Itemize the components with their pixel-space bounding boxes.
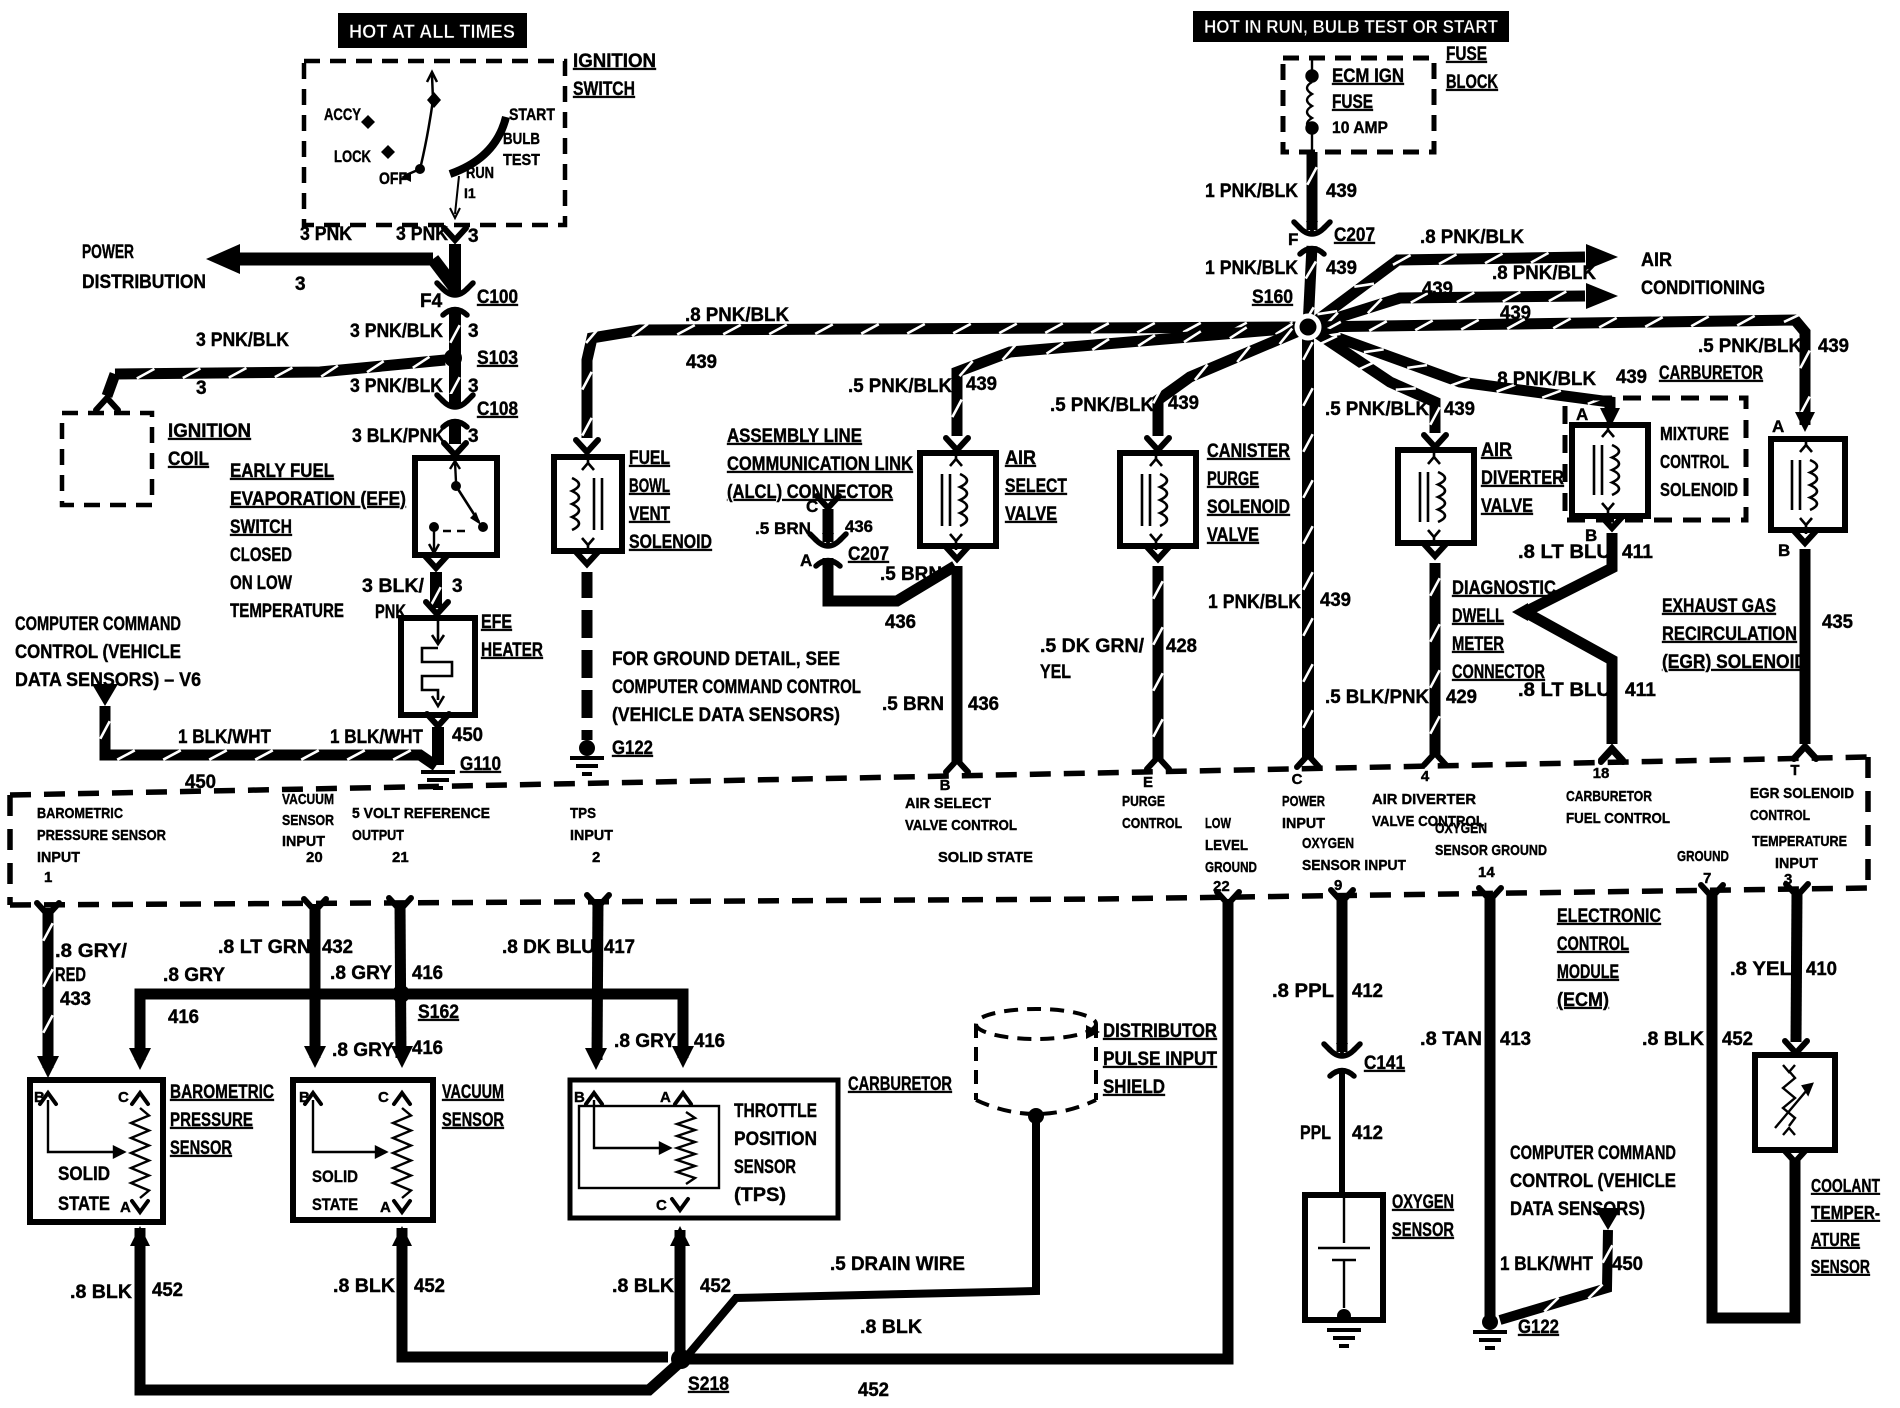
fuel bowl vent solenoid box: [554, 457, 622, 551]
svg-text:3 BLK/PNK: 3 BLK/PNK: [352, 426, 445, 447]
svg-text:LEVEL: LEVEL: [1205, 837, 1248, 854]
svg-text:429: 429: [1446, 687, 1477, 708]
svg-text:SENSOR: SENSOR: [282, 812, 334, 829]
ECM pin 1 bottom connector: [37, 903, 59, 915]
connector below air select valve: [946, 547, 968, 559]
connector C207 main: [1294, 221, 1330, 254]
svg-text:PULSE INPUT: PULSE INPUT: [1103, 1049, 1217, 1070]
svg-text:S218: S218: [688, 1374, 729, 1395]
svg-text:412: 412: [1352, 981, 1383, 1002]
wire pin1 to barometric sensor: [43, 908, 52, 1068]
wire ignition switch to C100: [449, 244, 461, 295]
svg-text:3: 3: [452, 576, 463, 597]
svg-text:GROUND: GROUND: [1205, 859, 1257, 876]
svg-text:B: B: [1778, 541, 1790, 560]
svg-text:FUEL CONTROL: FUEL CONTROL: [1566, 810, 1670, 827]
connector C100: [437, 282, 473, 315]
svg-text:3 PNK/BLK: 3 PNK/BLK: [196, 330, 289, 351]
svg-text:CONTROL: CONTROL: [1557, 934, 1629, 955]
svg-text:DISTRIBUTOR: DISTRIBUTOR: [1103, 1021, 1217, 1042]
ECM pin T connector: [1794, 747, 1816, 759]
EGR solenoid box: [1771, 439, 1845, 530]
svg-text:B: B: [574, 1089, 585, 1106]
svg-text:VENT: VENT: [629, 504, 670, 525]
svg-text:.8 BLK: .8 BLK: [860, 1317, 922, 1338]
wire S218 to pin22 riser: [688, 899, 1228, 1359]
svg-text:COMMUNICATION LINK: COMMUNICATION LINK: [727, 454, 913, 475]
svg-text:416: 416: [412, 1038, 443, 1059]
svg-text:PPL: PPL: [1300, 1123, 1331, 1144]
svg-text:(EGR) SOLENOID: (EGR) SOLENOID: [1662, 652, 1807, 673]
ignition switch ACCY contact: [324, 105, 375, 129]
svg-text:450: 450: [452, 725, 483, 746]
svg-text:PRESSURE SENSOR: PRESSURE SENSOR: [37, 827, 166, 844]
svg-text:SOLENOID: SOLENOID: [1207, 497, 1290, 518]
label exhaust gas recirculation solenoid: [1662, 596, 1807, 673]
label vacuum sensor input: [282, 791, 334, 850]
svg-text:452: 452: [414, 1276, 445, 1297]
mixture control solenoid coil: [1594, 421, 1619, 519]
svg-text:CARBURETOR: CARBURETOR: [1566, 788, 1652, 805]
svg-text:.8 GRY: .8 GRY: [332, 1040, 394, 1061]
svg-text:1 PNK/BLK: 1 PNK/BLK: [1205, 258, 1298, 279]
wire MCS to dwell connector point: [1525, 533, 1612, 744]
svg-text:439: 439: [1326, 258, 1357, 279]
air diverter coil: [1420, 448, 1445, 546]
svg-text:VACUUM: VACUUM: [282, 791, 334, 808]
G122 right ground: [1473, 1332, 1507, 1348]
svg-text:INPUT: INPUT: [1775, 855, 1818, 872]
fuse block box: [1283, 58, 1434, 152]
wire canister purge to ECM pin E: [1153, 566, 1162, 760]
svg-text:411: 411: [1625, 680, 1656, 701]
connector into canister purge valve: [1147, 438, 1169, 450]
svg-text:436: 436: [885, 612, 916, 633]
svg-text:SOLID: SOLID: [312, 1167, 358, 1186]
wire heater to G110: [432, 727, 444, 765]
svg-text:(TPS): (TPS): [734, 1185, 786, 1206]
connector into air select valve: [946, 438, 968, 450]
svg-text:PRESSURE: PRESSURE: [170, 1110, 253, 1131]
svg-text:14: 14: [1478, 864, 1495, 881]
svg-text:.5 BRN: .5 BRN: [882, 694, 944, 715]
G122 right dot: [1482, 1314, 1498, 1330]
svg-text:(ECM): (ECM): [1557, 990, 1609, 1011]
svg-text:VALVE CONTROL: VALVE CONTROL: [905, 817, 1017, 834]
TPS resistor: [677, 1112, 695, 1184]
svg-text:BAROMETRIC: BAROMETRIC: [37, 805, 123, 822]
banner HOT AT ALL TIMES: [338, 13, 527, 48]
arrowhead air conditioning 2: [1586, 283, 1618, 309]
svg-text:G122: G122: [612, 738, 653, 759]
wire S160 to EGR solenoid: [1308, 313, 1810, 425]
svg-text:RED: RED: [55, 965, 86, 986]
connector MCS wire to pin 18: [1601, 748, 1623, 760]
ignition switch LOCK contact: [334, 145, 395, 166]
svg-text:1 PNK/BLK: 1 PNK/BLK: [1208, 592, 1301, 613]
wire drain: [688, 1120, 1036, 1355]
ECM pin 4 connector: [1424, 753, 1446, 765]
svg-text:FUEL: FUEL: [629, 448, 670, 469]
svg-text:.5 BLK/PNK: .5 BLK/PNK: [1325, 687, 1429, 708]
wire pin21 through S162: [400, 902, 401, 1058]
distributor arrow: [1086, 1025, 1100, 1039]
svg-text:EVAPORATION (EFE): EVAPORATION (EFE): [230, 489, 406, 510]
svg-text:450: 450: [1612, 1254, 1643, 1275]
svg-text:1 BLK/WHT: 1 BLK/WHT: [1500, 1254, 1593, 1275]
label air diverter valve control: [1372, 791, 1484, 830]
label air select valve control: [905, 795, 1017, 834]
svg-text:439: 439: [686, 352, 717, 373]
svg-text:SENSOR: SENSOR: [734, 1157, 796, 1178]
svg-text:.8 PNK/BLK: .8 PNK/BLK: [685, 305, 789, 326]
wire pin9 to C141: [1337, 897, 1348, 1052]
svg-text:SOLENOID: SOLENOID: [1660, 480, 1738, 500]
svg-text:A: A: [120, 1199, 131, 1216]
svg-text:(VEHICLE DATA SENSORS): (VEHICLE DATA SENSORS): [612, 705, 840, 726]
splice S218: [671, 1349, 691, 1369]
svg-text:416: 416: [168, 1007, 199, 1028]
svg-text:3 PNK/BLK: 3 PNK/BLK: [350, 376, 443, 397]
svg-text:SOLID: SOLID: [58, 1164, 110, 1185]
svg-text:TEMPER-: TEMPER-: [1811, 1203, 1880, 1223]
coolant sensor resistor: [1775, 1065, 1812, 1135]
TPS pin C: [672, 1199, 688, 1210]
svg-text:AIR: AIR: [1005, 448, 1036, 469]
svg-text:SELECT: SELECT: [1005, 476, 1067, 497]
svg-text:FOR GROUND DETAIL, SEE: FOR GROUND DETAIL, SEE: [612, 649, 840, 670]
barometric sensor box: [30, 1080, 163, 1222]
label coolant temperature sensor: [1811, 1176, 1880, 1277]
baro pin B: [40, 1093, 56, 1104]
label power input: [1282, 793, 1325, 832]
svg-text:435: 435: [1822, 612, 1853, 633]
svg-text:A: A: [800, 551, 812, 570]
svg-text:RECIRCULATION: RECIRCULATION: [1662, 624, 1797, 645]
svg-text:POSITION: POSITION: [734, 1129, 817, 1150]
splice S103: [444, 349, 462, 367]
svg-text:VACUUM: VACUUM: [442, 1082, 504, 1103]
connector below EGR: [1794, 531, 1816, 543]
wire pin7 to coolant return: [1712, 892, 1795, 1318]
ECM pin E connector: [1147, 757, 1169, 769]
wire bend into ignition coil: [107, 374, 115, 396]
TPS wiper: [594, 1100, 670, 1153]
ECM pin 14 bottom connector: [1479, 888, 1501, 900]
svg-text:LOCK: LOCK: [334, 147, 372, 166]
svg-text:.8 BLK: .8 BLK: [70, 1282, 132, 1303]
wire bend into power distribution: [433, 259, 455, 288]
label early fuel evaporation switch: [230, 461, 406, 622]
svg-text:SENSOR: SENSOR: [1811, 1257, 1870, 1277]
svg-text:SWITCH: SWITCH: [573, 79, 635, 100]
svg-text:B: B: [34, 1089, 45, 1106]
ECM strip top edge: [10, 757, 1868, 795]
vacuum sensor box: [293, 1080, 433, 1220]
svg-text:2: 2: [592, 849, 600, 866]
svg-text:CONTROL: CONTROL: [1122, 815, 1182, 832]
svg-text:YEL: YEL: [1040, 662, 1071, 683]
svg-text:3 BLK/: 3 BLK/: [362, 576, 425, 597]
label tps input: [570, 805, 613, 844]
wire 416 bus right: [401, 994, 683, 1058]
label distributor pulse input shield: [1103, 1021, 1217, 1098]
triangle connector v6: [92, 684, 118, 706]
svg-text:439: 439: [1444, 399, 1475, 420]
svg-text:C100: C100: [477, 287, 518, 308]
svg-text:F4: F4: [420, 291, 443, 312]
label fuse block: [1446, 44, 1498, 93]
svg-text:VALVE: VALVE: [1481, 496, 1533, 517]
baro wiper: [48, 1100, 124, 1157]
coolant sensor box: [1755, 1055, 1835, 1150]
wire 439 bus to fuel bowl solenoid: [582, 322, 1308, 438]
svg-text:PURGE: PURGE: [1207, 469, 1259, 490]
svg-text:CLOSED: CLOSED: [230, 545, 292, 566]
wire air select valve to ECM pin B: [952, 566, 963, 762]
distributor bottom dot: [1028, 1108, 1044, 1124]
label temperature input: [1752, 833, 1847, 850]
arrow into baro C: [129, 1048, 151, 1070]
svg-text:.8 BLK: .8 BLK: [1642, 1029, 1704, 1050]
svg-text:STATE: STATE: [312, 1195, 358, 1214]
ignition switch rotor line: [421, 72, 437, 165]
svg-text:BOWL: BOWL: [629, 476, 670, 497]
svg-text:439: 439: [966, 374, 997, 395]
fuse symbol: [1307, 60, 1318, 152]
svg-text:EGR SOLENOID: EGR SOLENOID: [1750, 785, 1854, 802]
TPS outer box: [570, 1080, 838, 1218]
wire C108 to EFE switch: [449, 420, 461, 444]
svg-text:CONNECTOR: CONNECTOR: [1452, 662, 1545, 683]
svg-text:POWER: POWER: [82, 242, 134, 263]
svg-text:436: 436: [968, 694, 999, 715]
arrow into EGR A: [1795, 412, 1815, 432]
svg-text:C207: C207: [1334, 225, 1375, 246]
svg-text:.8 BLK: .8 BLK: [612, 1276, 674, 1297]
wire S103 to ignition coil: [115, 357, 445, 379]
svg-text:EFE: EFE: [481, 612, 512, 633]
svg-text:I1: I1: [464, 185, 476, 201]
svg-text:GROUND: GROUND: [1677, 848, 1729, 865]
label air diverter valve: [1481, 440, 1564, 517]
svg-text:439: 439: [1616, 367, 1647, 388]
svg-text:AIR DIVERTER: AIR DIVERTER: [1372, 791, 1476, 808]
ignition coil box: [62, 413, 152, 505]
ECM pin 21 bottom connector: [389, 898, 411, 910]
svg-text:SENSOR: SENSOR: [1392, 1220, 1454, 1241]
svg-text:3: 3: [468, 226, 479, 247]
svg-text:T: T: [1790, 762, 1799, 779]
svg-text:.8 LT BLU: .8 LT BLU: [1518, 542, 1611, 563]
svg-text:AIR SELECT: AIR SELECT: [905, 795, 991, 812]
svg-text:439: 439: [1320, 590, 1351, 611]
arrow into TPS B: [585, 1048, 607, 1070]
svg-text:ECM IGN: ECM IGN: [1332, 66, 1404, 87]
splice S162: [392, 985, 410, 1003]
connector below coolant sensor: [1784, 1150, 1806, 1162]
svg-text:BLOCK: BLOCK: [1446, 72, 1498, 93]
mixture control solenoid box: [1572, 425, 1648, 516]
svg-text:A: A: [1772, 417, 1784, 436]
ignition switch run output line: [450, 176, 460, 218]
ECM pin 20 bottom connector: [304, 899, 326, 911]
svg-text:452: 452: [152, 1280, 183, 1301]
svg-text:FUSE: FUSE: [1332, 92, 1373, 113]
svg-text:SENSOR INPUT: SENSOR INPUT: [1302, 857, 1406, 874]
svg-text:3 PNK: 3 PNK: [396, 224, 448, 245]
svg-text:DISTRIBUTION: DISTRIBUTION: [82, 272, 206, 293]
wire to air conditioning 2: [1308, 292, 1585, 328]
connector below EFE heater: [427, 714, 449, 726]
svg-text:5 VOLT REFERENCE: 5 VOLT REFERENCE: [352, 805, 490, 822]
svg-text:4: 4: [1421, 768, 1430, 785]
arrow into TPS A: [672, 1046, 694, 1068]
svg-text:C: C: [1292, 771, 1303, 788]
connector into air diverter valve: [1424, 435, 1446, 447]
svg-text:IGNITION: IGNITION: [573, 51, 656, 72]
svg-text:COIL: COIL: [168, 449, 209, 470]
svg-text:ACCY: ACCY: [324, 105, 362, 124]
svg-text:3: 3: [468, 426, 479, 447]
svg-text:OFF: OFF: [379, 169, 407, 188]
air diverter valve box: [1398, 450, 1474, 543]
svg-text:452: 452: [700, 1276, 731, 1297]
distributor cylinder: [976, 1009, 1096, 1114]
baro pin C: [132, 1093, 148, 1104]
EFE switch bottom pin: [429, 531, 439, 553]
label ALCL connector: [727, 426, 913, 503]
svg-text:CONTROL (VEHICLE: CONTROL (VEHICLE: [1510, 1171, 1676, 1192]
air select valve box: [920, 453, 996, 546]
svg-text:B: B: [299, 1089, 310, 1106]
svg-text:DATA SENSORS): DATA SENSORS): [1510, 1199, 1645, 1220]
wire fuse to C207: [1307, 152, 1316, 230]
arrow into baro B: [37, 1056, 59, 1078]
label oxygen sensor input: [1302, 835, 1406, 874]
svg-text:B: B: [940, 777, 951, 794]
triangle connector ccc right: [1595, 1208, 1621, 1230]
wire pin2 to TPS: [597, 899, 598, 1060]
svg-text:STATE: STATE: [58, 1194, 110, 1215]
svg-text:439: 439: [1818, 336, 1849, 357]
svg-text:POWER: POWER: [1282, 793, 1325, 810]
arrow into MCS A: [1600, 408, 1620, 428]
label EFE heater: [481, 612, 543, 661]
svg-text:439: 439: [1168, 393, 1199, 414]
svg-text:BAROMETRIC: BAROMETRIC: [170, 1082, 274, 1103]
wire fuel bowl solenoid to G122 (block dashed): [582, 572, 593, 740]
label 5 volt reference output: [352, 805, 490, 844]
svg-text:452: 452: [1722, 1029, 1753, 1050]
svg-text:SENSOR GROUND: SENSOR GROUND: [1435, 842, 1547, 859]
svg-text:CONTROL: CONTROL: [1660, 452, 1729, 472]
wire C207 to S160: [1303, 246, 1316, 327]
svg-text:C: C: [118, 1089, 129, 1106]
ECM pin 3 bottom connector: [1786, 884, 1808, 896]
svg-text:.8 PPL: .8 PPL: [1272, 981, 1334, 1002]
air select valve coil: [942, 450, 967, 550]
wire S160 to canister purge: [1153, 327, 1308, 436]
svg-text:A: A: [1576, 405, 1588, 424]
ignition switch start arc: [450, 117, 506, 174]
svg-text:OXYGEN: OXYGEN: [1302, 835, 1354, 852]
ground G122 dot: [579, 740, 595, 756]
connector below fuel bowl solenoid: [576, 552, 598, 564]
connector below canister purge: [1147, 547, 1169, 559]
svg-text:E: E: [1143, 774, 1153, 791]
wire S103 to C108: [450, 362, 459, 405]
svg-text:IGNITION: IGNITION: [168, 421, 251, 442]
svg-text:.8 PNK/BLK: .8 PNK/BLK: [1492, 263, 1596, 284]
connector into fuel bowl solenoid: [576, 440, 598, 452]
ground G110 symbol: [421, 772, 455, 788]
label egr solenoid control: [1750, 785, 1854, 824]
wire pin14 to G122: [1485, 895, 1496, 1316]
svg-text:S162: S162: [418, 1002, 459, 1023]
svg-text:3 PNK: 3 PNK: [300, 224, 352, 245]
svg-text:INPUT: INPUT: [1282, 815, 1325, 832]
svg-text:INPUT: INPUT: [37, 849, 80, 866]
canister purge coil: [1142, 450, 1167, 550]
wire ALCL C to C207: [823, 509, 834, 542]
label for ground detail: [612, 649, 861, 726]
wire S160 to air select valve: [952, 324, 1308, 436]
ECM pin 2 bottom connector: [587, 895, 609, 907]
svg-text:HOT IN RUN, BULB TEST OR START: HOT IN RUN, BULB TEST OR START: [1204, 17, 1498, 37]
svg-text:1 BLK/WHT: 1 BLK/WHT: [178, 727, 271, 748]
label oxygen sensor ground: [1435, 820, 1547, 859]
label canister purge solenoid valve: [1207, 441, 1290, 546]
svg-text:410: 410: [1806, 959, 1837, 980]
svg-text:EXHAUST GAS: EXHAUST GAS: [1662, 596, 1776, 617]
label low level ground: [1205, 815, 1257, 876]
svg-text:METER: METER: [1452, 634, 1504, 655]
connector C207 alcl: [810, 533, 846, 566]
svg-text:CARBURETOR: CARBURETOR: [848, 1074, 952, 1095]
svg-text:.8 PNK/BLK: .8 PNK/BLK: [1420, 227, 1524, 248]
label ECM IGN fuse: [1332, 66, 1404, 113]
svg-text:.5 PNK/BLK: .5 PNK/BLK: [1698, 336, 1802, 357]
ignition switch box: [304, 61, 565, 225]
wire 1 BLK/WHT to G110: [100, 706, 436, 766]
svg-text:452: 452: [858, 1380, 889, 1401]
wire TPS C to S218: [675, 1230, 686, 1355]
ECM pin 7 bottom connector: [1701, 885, 1723, 897]
banner HOT IN RUN BULB TEST OR START: [1193, 11, 1509, 42]
svg-text:VALVE: VALVE: [1207, 525, 1259, 546]
ECM pin 9 bottom connector: [1331, 890, 1353, 902]
TPS inner box: [579, 1106, 719, 1188]
ground G122 symbol: [570, 758, 604, 774]
svg-text:TPS: TPS: [570, 805, 596, 822]
arrow baro A up: [130, 1226, 150, 1246]
svg-text:439: 439: [1326, 181, 1357, 202]
label electronic control module: [1557, 906, 1661, 1011]
svg-text:SWITCH: SWITCH: [230, 517, 292, 538]
connector below MCS: [1601, 516, 1623, 528]
wire to air conditioning 1: [1308, 253, 1585, 327]
svg-text:A: A: [380, 1199, 391, 1216]
TPS pin B: [586, 1093, 602, 1104]
svg-text:.5 DRAIN WIRE: .5 DRAIN WIRE: [830, 1254, 965, 1275]
svg-text:COOLANT: COOLANT: [1811, 1176, 1880, 1196]
wire C141 to oxygen sensor: [1339, 1068, 1345, 1192]
svg-text:EARLY FUEL: EARLY FUEL: [230, 461, 334, 482]
svg-text:TEMPERATURE: TEMPERATURE: [230, 601, 344, 622]
label solid state vac: [312, 1167, 358, 1214]
EFE heater element: [422, 621, 452, 706]
